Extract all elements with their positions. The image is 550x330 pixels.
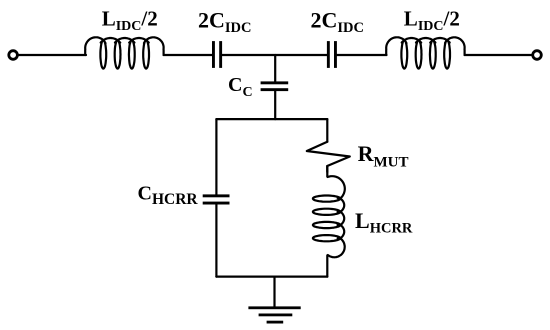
wire coil1 to C1 xyxy=(164,54,212,56)
wire box left lower xyxy=(215,204,217,276)
wire Cc to box top xyxy=(274,91,276,119)
wire box top edge xyxy=(216,118,327,120)
inductor L_IDC/2 right coil xyxy=(386,37,464,68)
svg-text:2CIDC: 2CIDC xyxy=(311,7,364,36)
svg-text:CHCRR: CHCRR xyxy=(138,182,199,208)
wire C1 to C2 xyxy=(222,54,327,56)
resistor R_MUT xyxy=(307,142,350,172)
ground xyxy=(248,306,300,309)
capacitor Cc plates xyxy=(261,81,289,84)
capacitor 2C_IDC left plates xyxy=(212,41,215,68)
capacitor C_HCRR plates xyxy=(203,194,230,197)
wire right lead xyxy=(465,54,531,56)
wire C2 to coil2 xyxy=(337,54,387,56)
port terminal left xyxy=(9,51,18,60)
inductor L_IDC/2 left coil xyxy=(85,37,163,68)
svg-text:LHCRR: LHCRR xyxy=(355,208,413,236)
svg-text:RMUT: RMUT xyxy=(358,141,409,171)
wire box left upper xyxy=(215,119,217,194)
wire box bottom edge xyxy=(216,276,327,278)
wire left lead xyxy=(18,54,86,56)
svg-text:LIDC/2: LIDC/2 xyxy=(404,6,460,34)
svg-text:2CIDC: 2CIDC xyxy=(198,7,251,36)
capacitor 2C_IDC right plates xyxy=(327,41,330,68)
svg-text:CC: CC xyxy=(228,74,253,100)
inductor L_HCRR vertical coil xyxy=(313,166,345,277)
wire ground stub xyxy=(273,277,275,308)
svg-text:LIDC/2: LIDC/2 xyxy=(102,6,158,34)
node junction wire down xyxy=(274,55,276,81)
port terminal right xyxy=(533,51,542,60)
wire box right upper xyxy=(326,119,328,142)
